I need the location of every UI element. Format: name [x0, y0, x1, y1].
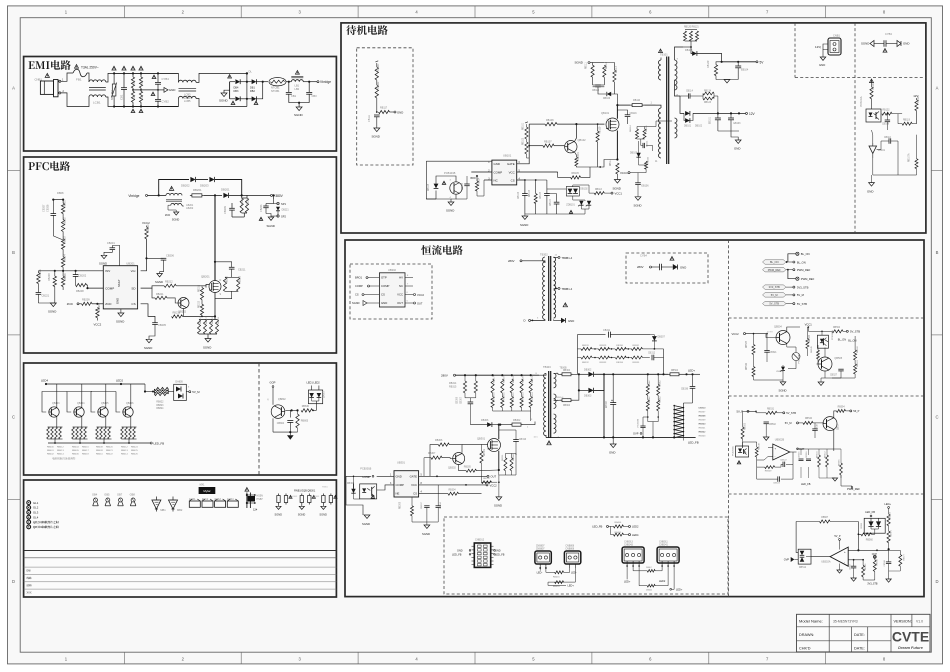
svg-text:Dream Future: Dream Future [898, 646, 923, 650]
RB106 top gate resistor [529, 123, 545, 125]
svg-text:RB416: RB416 [553, 577, 560, 579]
opto PCB303A with BL_ON [817, 335, 828, 348]
svg-text:D: D [12, 579, 15, 584]
svg-text:D: D [935, 579, 938, 584]
warning triangles above resistor bank [112, 66, 116, 70]
svg-text:GL4: GL4 [33, 515, 39, 519]
LED feedback diode stack [673, 406, 675, 438]
svg-text:OUT: OUT [491, 475, 497, 479]
svg-text:ZCD: ZCD [165, 214, 170, 217]
svg-text:B: B [936, 250, 939, 255]
svg-text:RB400: RB400 [47, 447, 54, 449]
svg-text:RB318: RB318 [503, 376, 505, 383]
sense resistors RB311 RB312 [504, 458, 507, 471]
svg-text:COMP: COMP [381, 284, 390, 288]
svg-text:RB213: RB213 [173, 311, 181, 314]
svg-text:SGND: SGND [575, 61, 583, 65]
svg-text:RB: RB [141, 80, 144, 84]
net flag BL_ON with branch [796, 252, 799, 255]
standby section box 待机电路 [341, 23, 926, 233]
12V output rail [693, 112, 746, 114]
svg-text:5V_M: 5V_M [785, 421, 792, 425]
CB312 cap [651, 355, 653, 361]
svg-text:RB320: RB320 [523, 376, 525, 383]
net flag 5V_M [763, 293, 787, 297]
svg-text:DB306: DB306 [481, 419, 489, 422]
svg-text:DB102: DB102 [580, 188, 588, 191]
svg-text:5#_P: 5#_P [853, 409, 859, 413]
svg-text:RB101: RB101 [523, 122, 525, 130]
svg-text:SP1: SP1 [281, 202, 286, 206]
svg-text:RB161: RB161 [377, 63, 380, 71]
ZDB101 zener [579, 201, 583, 205]
gate drive vertical bus [517, 124, 530, 164]
transformer secondary windings [675, 60, 678, 90]
svg-text:CYB4: CYB4 [162, 77, 170, 81]
svg-text:RB342: RB342 [699, 432, 706, 434]
svg-text:RB566: RB566 [857, 346, 859, 353]
svg-text:NC: NC [494, 178, 498, 182]
MOSFET QB201 drain line [214, 195, 216, 280]
PFC section box [24, 157, 337, 353]
RB214 RB215 gate pulldowns [205, 286, 207, 288]
RB116 to VCC1 terminal [594, 192, 604, 195]
aux winding rectifier to VCC1 [674, 118, 676, 124]
svg-text:Vbridge: Vbridge [320, 80, 331, 84]
svg-text:RB114: RB114 [610, 158, 612, 166]
CYB4 dashed box [626, 253, 708, 283]
svg-text:CB527: CB527 [830, 375, 838, 377]
RB542 [752, 367, 755, 377]
output rail to LED+ [604, 373, 668, 375]
TB303 secondary windings [554, 373, 556, 387]
svg-text:RB604: RB604 [578, 152, 580, 160]
output diodes DB302 DB303 [579, 373, 588, 375]
RB306 gate feed [438, 443, 449, 446]
svg-text:GND: GND [819, 63, 825, 67]
svg-text:RB560: RB560 [866, 540, 874, 542]
svg-text:5V_STB: 5V_STB [797, 302, 807, 306]
svg-text:CNB013: CNB013 [624, 542, 633, 544]
svg-text:XXX: XXX [27, 592, 32, 595]
svg-text:SGND: SGND [446, 209, 454, 213]
VCC2 terminal [419, 484, 486, 486]
resistor RB201 boxed [190, 194, 192, 196]
svg-text:SGND: SGND [520, 223, 528, 227]
svg-text:DB307: DB307 [658, 336, 666, 339]
svg-text:HSB3: HSB3 [292, 496, 298, 498]
svg-text:GND: GND [495, 550, 501, 553]
svg-text:QB802: QB802 [278, 398, 286, 401]
dashed partition lines of CC box [728, 240, 730, 597]
svg-text:-: - [844, 560, 845, 564]
svg-text:GL3: GL3 [33, 511, 39, 515]
CB316 snubber cap [513, 439, 519, 441]
svg-text:DB512: DB512 [799, 567, 807, 569]
svg-text:MB2: MB2 [177, 508, 183, 512]
12V rectifier DB101 DB102 [675, 80, 681, 96]
svg-text:RB315: RB315 [449, 385, 457, 388]
svg-text:RB105: RB105 [572, 172, 580, 175]
svg-text:SGND: SGND [779, 388, 787, 392]
QB504 collector to VCC1 [787, 327, 800, 332]
OUT terminal [419, 475, 487, 477]
feedback resistor chains [647, 374, 649, 384]
fuse rating label T3AL 250V~ [75, 65, 79, 69]
svg-text:RB405: RB405 [72, 450, 79, 452]
svg-text:SGND: SGND [494, 504, 502, 508]
svg-text:DL: DL [249, 70, 253, 74]
svg-text:SGND: SGND [219, 99, 229, 103]
svg-text:CB1: CB1 [291, 94, 297, 98]
svg-text:CB502: CB502 [769, 424, 777, 426]
net flag PWM_REF with branch [763, 268, 787, 272]
svg-text:RB417: RB417 [82, 450, 89, 452]
SP1 DB221 SP2 test points [273, 195, 275, 199]
svg-text:CS: CS [131, 302, 135, 306]
svg-text:DATE:: DATE: [854, 633, 865, 637]
svg-text:Vbridge: Vbridge [128, 194, 139, 198]
svg-text:CB221: CB221 [42, 295, 50, 298]
svg-text:GND: GND [116, 298, 120, 304]
svg-text:RB304: RB304 [563, 370, 571, 372]
svg-text:A: A [12, 86, 15, 91]
svg-text:SGND: SGND [634, 204, 642, 208]
svg-text:QB406: QB406 [126, 402, 134, 405]
RB112 RB119 resistors [882, 112, 892, 115]
svg-text:CB105: CB105 [540, 191, 542, 199]
svg-text:RB805: RB805 [301, 419, 309, 422]
svg-text:SGND: SGND [275, 513, 283, 517]
svg-text:VERSION:: VERSION: [894, 620, 912, 624]
svg-text:RB103: RB103 [529, 189, 531, 197]
svg-text:CB5x7: CB5x7 [850, 563, 852, 570]
svg-text:V1.0: V1.0 [916, 620, 923, 624]
svg-text:RB563: RB563 [857, 360, 859, 367]
transistor QB403 [49, 407, 59, 417]
svg-text:VB303: VB303 [776, 371, 783, 373]
resistor RB830 [301, 409, 313, 412]
svg-text:RB206: RB206 [64, 273, 67, 281]
svg-text:RB341: RB341 [699, 428, 706, 430]
svg-text:RB201: RB201 [64, 200, 67, 208]
svg-text:RB822: RB822 [156, 402, 164, 404]
svg-text:OUT: OUT [397, 301, 403, 305]
svg-text:RB104: RB104 [478, 177, 481, 185]
svg-text:LED_FB: LED_FB [592, 525, 602, 529]
svg-text:CB203: CB203 [260, 204, 263, 212]
node to mosfet drain [204, 194, 215, 196]
svg-text:5V_STB: 5V_STB [786, 411, 796, 415]
svg-text:DB310: DB310 [699, 408, 706, 410]
svg-text:RB3A2: RB3A2 [512, 453, 515, 461]
MOSFET QB101 [606, 118, 619, 131]
IC SGND [120, 309, 122, 313]
svg-text:DB102: DB102 [695, 126, 703, 128]
svg-text:RB220: RB220 [242, 197, 244, 205]
svg-text:LED+: LED+ [676, 589, 683, 592]
CB502 cap [764, 421, 769, 423]
base node wiring [281, 410, 291, 411]
svg-text:RB418: RB418 [553, 586, 560, 588]
svg-text:PWM_REF: PWM_REF [797, 268, 811, 272]
RB544 to 5V_STB [808, 327, 832, 331]
svg-text:CVTE: CVTE [892, 629, 929, 645]
svg-text:MOVB1: MOVB1 [110, 90, 114, 100]
svg-text:RB106: RB106 [546, 119, 554, 122]
SGND of bridge [224, 90, 230, 93]
DB102 dual diode [566, 187, 579, 197]
net flag 5V_STB [763, 301, 787, 305]
svg-text:SGND: SGND [267, 224, 275, 228]
svg-text:VCC2: VCC2 [490, 483, 498, 487]
svg-text:SGND: SGND [372, 135, 380, 139]
svg-text:BL_ON: BL_ON [770, 260, 779, 264]
border column ticks and numbers [123, 6, 125, 18]
svg-text:RB319: RB319 [513, 376, 515, 383]
RB313 to SGND [482, 471, 498, 483]
svg-text:RB406: RB406 [615, 522, 622, 524]
svg-text:CS: CS [355, 293, 359, 297]
svg-text:VCC: VCC [411, 483, 417, 487]
svg-text:PWM_REF: PWM_REF [801, 277, 815, 281]
+380V output [242, 194, 271, 196]
svg-text:280V: 280V [508, 259, 515, 263]
svg-text:GND: GND [867, 189, 873, 193]
svg-text:GB4: GB4 [92, 493, 98, 497]
net flag 3V3_STB [763, 285, 787, 289]
bottom GND rail [546, 436, 696, 438]
RB305 emitter resistor [466, 469, 476, 472]
opto to IC wires [377, 475, 394, 477]
svg-text:LED2: LED2 [116, 379, 123, 383]
input bus [456, 374, 540, 376]
svg-text:RB330: RB330 [616, 345, 623, 347]
svg-text:DB202: DB202 [181, 184, 190, 188]
svg-text:CB805: CB805 [462, 182, 464, 190]
svg-text:RB567: RB567 [821, 517, 829, 519]
svg-text:CB306: CB306 [457, 396, 459, 404]
svg-text:SGND: SGND [294, 113, 304, 117]
svg-text:DB2: DB2 [250, 90, 255, 93]
svg-text:BL_ON: BL_ON [801, 252, 810, 256]
svg-text:RB525: RB525 [746, 340, 748, 348]
svg-text:LED_FB: LED_FB [865, 510, 875, 514]
svg-text:RB573: RB573 [890, 511, 892, 518]
svg-text:SGND: SGND [319, 513, 327, 517]
svg-text:RB337: RB337 [699, 412, 706, 414]
RB545 base res [817, 350, 820, 359]
svg-text:RB334: RB334 [616, 362, 623, 364]
bridge rectifier DB1-DB4 [246, 73, 248, 81]
CB521 cap [764, 350, 769, 352]
main bulk line down [603, 374, 605, 437]
svg-text:RNB1 EQB QB301: RNB1 EQB QB301 [294, 489, 316, 492]
svg-text:DB105: DB105 [630, 153, 638, 155]
secondary snubber CB114 RB124 RB123 [680, 95, 688, 97]
svg-text:DB4A: DB4A [646, 589, 652, 592]
svg-text:RB426: RB426 [131, 453, 138, 455]
mount icon RNB2 [278, 494, 280, 496]
RB107 to QB102 base [529, 145, 543, 147]
svg-text:C: C [935, 415, 938, 420]
svg-text:12#: 12# [253, 509, 258, 512]
transistor QB404 [74, 407, 84, 417]
svg-text:TB305-4: TB305-4 [555, 397, 564, 399]
svg-text:QB404: QB404 [77, 402, 85, 405]
primary bottom return [640, 162, 661, 167]
MOSFET QB301 [488, 439, 501, 452]
svg-text:CS: CS [413, 492, 417, 496]
clamp diode DB106 [607, 92, 611, 96]
svg-text:RB425: RB425 [131, 450, 138, 452]
RB504 series box [668, 373, 670, 375]
svg-text:MX1: MX1 [200, 484, 206, 487]
svg-text:BRO1: BRO1 [355, 276, 363, 280]
RB107A [915, 159, 918, 169]
constant-current section box 恒流电路 [345, 240, 924, 597]
svg-text:RB215: RB215 [199, 300, 201, 308]
svg-text:GND: GND [734, 147, 740, 151]
svg-text:RB5x3: RB5x3 [865, 563, 867, 570]
svg-text:CYB4: CYB4 [640, 254, 647, 258]
caps CB207 CB208 beside chain [52, 200, 54, 214]
svg-text:A: A [936, 86, 939, 91]
svg-text:UB302A: UB302A [821, 561, 831, 564]
cap CB111 [374, 114, 380, 116]
transistor QB505 [818, 357, 832, 371]
svg-text:CB336: CB336 [681, 389, 689, 391]
svg-text:CB207: CB207 [43, 204, 46, 212]
warning triangle [45, 73, 49, 77]
SGND below opto [448, 202, 454, 206]
svg-text:HSB1: HSB1 [322, 487, 328, 489]
svg-text:CB304: CB304 [440, 502, 442, 509]
svg-text:RB107: RB107 [544, 140, 552, 143]
CB524 cap [777, 476, 779, 481]
divider RB101 RB102 on gate bus [525, 127, 528, 139]
CB205 filter cap [152, 322, 158, 324]
svg-text:RB413: RB413 [121, 450, 128, 452]
svg-text:RB218: RB218 [212, 317, 214, 324]
svg-text:RB509: RB509 [745, 422, 747, 430]
svg-text:VCC1: VCC1 [805, 323, 813, 327]
svg-text:RB: RB [133, 80, 136, 84]
svg-text:NC: NC [399, 284, 403, 288]
top rail with LED4 LED2 labels [46, 383, 145, 385]
cap CB805 [464, 183, 469, 185]
svg-text:DB108: DB108 [428, 183, 430, 191]
svg-text:GND: GND [494, 162, 500, 166]
svg-text:QB405: QB405 [101, 402, 109, 405]
svg-text:RB149: RB149 [707, 60, 710, 68]
svg-text:DB08: DB08 [57, 191, 64, 195]
VCC wire from IC [517, 171, 558, 173]
svg-text:QB101: QB101 [601, 111, 610, 115]
svg-text:LED_FB: LED_FB [452, 554, 462, 557]
PFC choke LB201 with ZCD winding [159, 194, 166, 196]
svg-text:GND: GND [169, 88, 177, 92]
wire N to choke [61, 93, 89, 107]
svg-text:RB412: RB412 [121, 447, 128, 449]
CB306 CB307 caps [468, 401, 474, 403]
svg-text:PCB303A: PCB303A [731, 446, 734, 456]
RB309 gate pulldown [480, 451, 483, 463]
svg-text:GB7: GB7 [117, 493, 123, 497]
svg-text:RB545: RB545 [811, 346, 813, 353]
mount icon EQB1 [301, 494, 303, 496]
svg-text:SGND: SGND [99, 261, 107, 265]
svg-text:QB201: QB201 [201, 275, 210, 279]
emitter rail to ground [272, 418, 274, 432]
source to sense [616, 131, 618, 160]
svg-text:RB331: RB331 [633, 345, 640, 347]
svg-text:RB409: RB409 [96, 450, 103, 452]
legend table [24, 550, 337, 552]
svg-text:UB101: UB101 [503, 153, 512, 157]
EB106 cap [635, 182, 641, 184]
diode DB105 [636, 153, 640, 157]
QB50x transistor [823, 417, 837, 431]
svg-text:SGND: SGND [144, 346, 152, 350]
IC left wires [426, 160, 492, 162]
svg-text:RB414: RB414 [121, 453, 128, 455]
resistor RB805 [296, 414, 299, 428]
transistor QB302 [453, 453, 465, 465]
RB104 beside opto [475, 181, 478, 191]
SGND of divider [38, 302, 54, 304]
svg-text:12V(: 12V( [815, 45, 821, 49]
COMP wire [88, 287, 108, 289]
svg-text:RB101: RB101 [872, 82, 875, 90]
svg-text:RB116: RB116 [595, 189, 603, 191]
svg-text:CB511: CB511 [861, 522, 863, 529]
svg-text:RB824: RB824 [156, 408, 164, 410]
X-cap CB1 [123, 73, 125, 87]
CB206 decoupling [147, 257, 164, 259]
bypass diodes DB202 DB203 top path [159, 180, 189, 196]
svg-text:RB117: RB117 [380, 107, 388, 110]
svg-text:EMI: EMI [27, 570, 32, 573]
svg-text:B: B [12, 250, 15, 255]
svg-text:RB823: RB823 [156, 405, 164, 407]
TL431 VB101 [869, 146, 877, 154]
svg-text:SGND: SGND [116, 320, 124, 324]
svg-text:RB311: RB311 [502, 454, 504, 461]
svg-text:CB206: CB206 [166, 254, 174, 258]
svg-text:LCB1: LCB1 [93, 101, 101, 105]
svg-text:RB116: RB116 [648, 156, 650, 163]
svg-text:5V_P: 5V_P [737, 410, 744, 414]
RB117 to GND [379, 110, 390, 113]
svg-text:T3AL 250V~: T3AL 250V~ [81, 66, 99, 70]
svg-text:CNB012: CNB012 [475, 539, 485, 542]
svg-text:C: C [12, 415, 15, 420]
svg-text:3V3_STB: 3V3_STB [797, 285, 809, 289]
svg-text:QB5x: QB5x [838, 423, 840, 430]
svg-text:CYB2: CYB2 [162, 100, 170, 104]
svg-text:RB332: RB332 [582, 362, 589, 364]
svg-text:RB575: RB575 [890, 529, 892, 536]
svg-text:RB123: RB123 [704, 102, 712, 104]
svg-text:PCB303B: PCB303B [799, 353, 801, 363]
bottom rail [114, 106, 178, 108]
sense resistor RB114 [616, 163, 619, 174]
svg-text:DA805: DA805 [175, 381, 183, 384]
svg-text:RB333: RB333 [600, 362, 607, 364]
svg-text:CB522: CB522 [780, 460, 787, 462]
svg-text:SGND: SGND [422, 532, 430, 536]
